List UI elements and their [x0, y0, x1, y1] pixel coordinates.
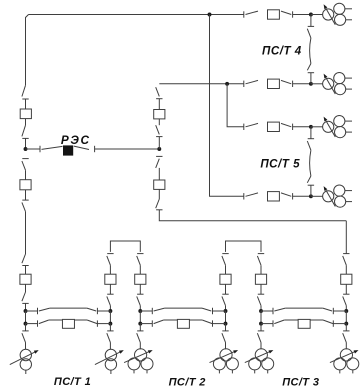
transformer T9 (ПС/Т 3 unit 1) [245, 349, 274, 374]
disconnector QS5 [22, 159, 29, 171]
wire top bus extension to PS/T4 feeder [210, 14, 244, 16]
breaker Q14 [341, 274, 352, 284]
wire column x110 mid [109, 284, 111, 294]
wire column x261 to bus [260, 306, 262, 311]
wire PS/T5 tie upper [310, 127, 312, 139]
transformer T7 (ПС/Т 2 unit 1) [124, 349, 153, 374]
disconnector QS48 [202, 320, 212, 327]
disconnector QS30 [137, 294, 144, 305]
disconnector QS21 [281, 193, 293, 200]
wire column x225 mid [225, 284, 227, 294]
junction node N17 [259, 309, 263, 313]
wire column x140 to transformer [139, 342, 141, 349]
transformer T8 (ПС/Т 2 unit 2) [210, 349, 239, 374]
label ПС/Т 1 [54, 376, 91, 388]
disconnector QS46 [202, 308, 213, 314]
wire branch 4 to junction [293, 195, 311, 197]
wire tie E-F row1 left stub [261, 310, 273, 312]
wire tie A-B row1 left stub [26, 310, 38, 312]
wire left feeder long run [25, 212, 27, 254]
wire column x346 bus link [345, 311, 347, 324]
disconnector QS20 [244, 193, 258, 200]
wire left feeder link2 [25, 119, 27, 126]
breaker Q8 [268, 122, 280, 131]
wire PS/T5 tie middle [310, 150, 311, 176]
svg-text:РЭС: РЭС [61, 133, 91, 147]
wire tie E-F row1 bridge [285, 307, 323, 309]
wire middle column link3 [158, 168, 160, 180]
junction node N16 [224, 322, 228, 326]
junction node N8 [309, 82, 313, 86]
wire tie C-D row1 bridge [165, 307, 202, 309]
junction node N2 [24, 147, 28, 151]
wire middle column link4 [158, 189, 160, 199]
wire tie E-F row2 left bridge [284, 319, 298, 321]
wire column x261 upper [260, 265, 262, 274]
disconnector QS15 [281, 11, 293, 18]
wire column x346 mid [345, 284, 347, 294]
svg-text:ПС/Т 4: ПС/Т 4 [262, 45, 302, 58]
wire top bus (left loop to node) [29, 14, 210, 16]
disconnector QS24 [307, 139, 314, 151]
disconnector QS25 [307, 176, 314, 185]
РЭС supply (black square) [63, 145, 73, 155]
wire column x140 to bus [139, 306, 141, 311]
wire tie E-F row2 left stub [261, 323, 273, 325]
wire branch 2 junction to transformer [311, 83, 323, 85]
wire left feeder to RES node [25, 138, 27, 149]
wire RES row left stub [26, 148, 41, 150]
breaker Q16 [177, 319, 189, 328]
wire left feeder upper [26, 15, 29, 86]
disconnector QS35 [257, 254, 264, 266]
jumper bracket ПС/Т 1 [110, 241, 140, 252]
wire branch 3 junction to transformer [311, 126, 323, 128]
disconnector QS52 [323, 320, 333, 327]
breaker Q1 [20, 109, 31, 119]
wire branch 2 to junction [293, 83, 311, 85]
disconnector QS17 [281, 80, 293, 87]
disconnector QS47 [152, 320, 163, 327]
wire column x25 mid [25, 284, 27, 292]
wire row y84 bus [159, 83, 244, 85]
wire left feeder link1 [25, 99, 27, 109]
svg-text:ПС/Т 5: ПС/Т 5 [260, 157, 300, 170]
junction node N6 [225, 82, 229, 86]
disconnector QS27 [107, 294, 114, 305]
disconnector QS14 [244, 11, 258, 18]
junction node N9 [309, 125, 313, 129]
wire tie A-B row1 right stub [97, 310, 110, 312]
disconnector QS2 [22, 125, 29, 138]
label ПС/Т 2 [169, 376, 206, 388]
disconnector QS6 [22, 200, 29, 212]
wire column x25 to bus [25, 303, 27, 311]
disconnector QS42 [87, 308, 98, 314]
wire feeder x209 run [210, 15, 244, 197]
disconnector QS1 [22, 85, 29, 99]
wire middle column link2 [158, 119, 160, 125]
disconnector QS7 [22, 254, 29, 266]
disconnector QS22 [307, 26, 314, 38]
svg-text:ПС/Т 2: ПС/Т 2 [169, 376, 206, 388]
wire column x225 bus link [225, 311, 227, 324]
svg-text:ПС/Т 3: ПС/Т 3 [282, 376, 319, 388]
wire middle column to row y221 [159, 210, 346, 221]
wire middle column to RES node [158, 137, 160, 149]
wire tie C-D row1 right stub [213, 310, 226, 312]
wire left feeder link4 [25, 190, 27, 200]
wire column x140 upper [139, 265, 141, 274]
wire tie E-F row2 right bridge [310, 319, 323, 321]
wire RES row to middle column [95, 148, 160, 150]
wire feeder x227 run [227, 84, 244, 127]
wire column x140 mid [139, 284, 141, 294]
breaker Q3 [20, 274, 31, 284]
disconnector QS18 [244, 123, 258, 130]
wire column x346 upper [345, 265, 347, 274]
breaker Q2 [20, 180, 31, 190]
junction node N5 [24, 322, 28, 326]
disconnector QS23 [307, 64, 314, 73]
junction node N12 [108, 322, 112, 326]
wire column x225 to transformer [225, 342, 227, 349]
breaker Q4 [154, 110, 165, 119]
wire column x140 lower [139, 324, 141, 331]
wire column x110 upper [109, 265, 111, 274]
wire branch 1 junction to transformer [311, 14, 323, 16]
disconnector QS8 [22, 292, 29, 303]
disconnector QS36 [257, 294, 264, 305]
disconnector QS3 [40, 146, 63, 152]
disconnector QS26 [107, 254, 114, 266]
label ПС/Т 4 [262, 45, 302, 58]
disconnector QS33 [222, 294, 229, 305]
breaker Q13 [255, 274, 266, 284]
disconnector QS39 [343, 294, 350, 305]
junction node N14 [138, 322, 142, 326]
transformer T10 (ПС/Т 3 unit 2) [330, 349, 359, 374]
wire tie A-B row2 left bridge [49, 319, 63, 321]
disconnector QS11 [156, 125, 163, 136]
disconnector QS28 [107, 331, 114, 343]
disconnector QS41 [38, 308, 50, 314]
jumper bracket ПС/Т 2 [226, 241, 262, 252]
wire tie A-B row2 right bridge [74, 319, 87, 321]
disconnector QS37 [257, 331, 264, 343]
wire column x261 lower [260, 324, 262, 331]
wire column x346 lower [345, 324, 347, 331]
breaker Q5 [154, 180, 165, 189]
breaker Q9 [268, 192, 280, 201]
junction node N3 [157, 147, 161, 151]
wire column x110 lower [109, 324, 111, 331]
wire column x25 upper [25, 266, 27, 275]
wire column x225 upper [225, 265, 227, 274]
wire tie A-B row2 right stub [97, 323, 110, 325]
junction node N4 [24, 309, 28, 313]
wire tie C-D row2 left stub [140, 323, 152, 325]
wire column x261 bus link [260, 311, 262, 324]
breaker Q6 [268, 10, 280, 19]
wire PS/T4 tie upper [310, 15, 312, 27]
wire tie C-D row2 right bridge [189, 319, 202, 321]
disconnector QS13 [156, 199, 163, 210]
wire column x261 to transformer [260, 342, 262, 349]
label ПС/Т 3 [282, 376, 319, 388]
breaker Q11 [135, 274, 146, 284]
wire branch 4 junction to transformer [311, 195, 323, 197]
wire column x110 bus link [109, 311, 111, 324]
transformer T6 (ПС/Т 1 unit 2) [95, 349, 124, 374]
wire PS/T4 tie middle [310, 38, 311, 64]
wire column x346 to bus [345, 306, 347, 311]
disconnector QS50 [323, 308, 334, 314]
wire column x346 to transformer [345, 342, 347, 349]
wire column x110 to transformer [109, 342, 111, 349]
wire tie A-B row1 bridge [50, 307, 87, 309]
junction node N20 [344, 322, 348, 326]
wire column x225 to bus [225, 306, 227, 311]
transformer T5 (ПС/Т 1 unit 1) [10, 349, 39, 374]
disconnector QS34 [222, 331, 229, 343]
wire column x25 lower [25, 324, 27, 331]
wire column x25 bus link [25, 311, 27, 324]
wire column x140 bus link [139, 311, 141, 324]
transformer T1 (ПС/Т 4 unit 1) [323, 3, 352, 25]
disconnector QS45 [152, 308, 164, 314]
svg-text:ПС/Т 1: ПС/Т 1 [54, 376, 91, 388]
junction node N7 [309, 13, 313, 17]
wire middle column link1 [158, 99, 160, 110]
disconnector QS49 [273, 308, 285, 314]
wire tie C-D row2 left bridge [164, 319, 178, 321]
disconnector QS31 [137, 331, 144, 343]
wire PS/T5 tie lower [310, 185, 312, 196]
disconnector QS12 [156, 156, 163, 168]
disconnector QS43 [38, 320, 49, 327]
wire tie A-B row2 left stub [26, 323, 38, 325]
wire left feeder link3 [25, 170, 27, 180]
junction node N13 [138, 309, 142, 313]
disconnector QS19 [281, 123, 293, 130]
disconnector QS32 [222, 254, 229, 266]
wire tie E-F row1 right stub [333, 310, 346, 312]
breaker Q10 [105, 274, 116, 284]
wire tie C-D row2 right stub [213, 323, 226, 325]
wire column x225 lower [225, 324, 227, 331]
label РЭС [61, 133, 91, 147]
wire tie C-D row1 left stub [140, 310, 152, 312]
junction node N10 [309, 194, 313, 198]
breaker Q12 [220, 274, 231, 284]
disconnector QS40 [343, 331, 350, 343]
breaker Q7 [268, 79, 280, 88]
breaker Q17 [298, 319, 310, 328]
transformer T2 (ПС/Т 4 unit 2) [323, 73, 352, 95]
wire tie E-F row2 right stub [333, 323, 346, 325]
disconnector QS9 [22, 331, 29, 343]
wire column x110 to bus [109, 306, 111, 311]
transformer T3 (ПС/Т 5 unit 1) [323, 116, 352, 138]
disconnector QS51 [273, 320, 284, 327]
wire column x261 mid [260, 284, 262, 294]
disconnector QS38 [343, 254, 350, 266]
junction node N18 [259, 322, 263, 326]
disconnector QS44 [87, 320, 97, 327]
wire PS/T4 tie lower [310, 73, 312, 84]
junction node N15 [224, 309, 228, 313]
breaker Q15 [62, 319, 74, 328]
junction node N19 [344, 309, 348, 313]
junction node N11 [108, 309, 112, 313]
disconnector QS29 [137, 254, 144, 266]
wire branch 3 to junction [293, 126, 311, 128]
junction node N1 [208, 13, 212, 17]
transformer T4 (ПС/Т 5 unit 2) [323, 185, 352, 207]
wire branch 1 to junction [293, 14, 311, 16]
wire column x25 to transformer [25, 342, 27, 349]
wire right drop to PS/T3 [345, 221, 347, 254]
disconnector QS10 [156, 87, 163, 99]
disconnector QS16 [244, 80, 258, 87]
label ПС/Т 5 [260, 157, 300, 170]
disconnector QS4 [74, 146, 95, 152]
